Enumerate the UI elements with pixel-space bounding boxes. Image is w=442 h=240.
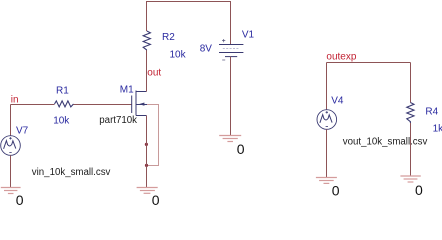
svg-text:M1: M1: [120, 84, 134, 95]
voltage source V7: [1, 126, 29, 156]
ground: [316, 178, 337, 184]
svg-text:1k: 1k: [433, 124, 442, 135]
svg-text:10k: 10k: [53, 116, 70, 127]
svg-text:0: 0: [332, 182, 340, 198]
ground: [400, 176, 420, 182]
resistor R4: [407, 103, 442, 135]
svg-text:outexp: outexp: [326, 52, 356, 63]
ground: [1, 188, 21, 194]
junction: [145, 164, 148, 167]
svg-text:0: 0: [415, 182, 423, 198]
svg-text:in: in: [11, 95, 19, 106]
battery V1: [200, 30, 255, 61]
svg-text:V7: V7: [16, 126, 29, 137]
svg-text:V4: V4: [331, 95, 344, 106]
svg-text:10k: 10k: [170, 50, 187, 61]
wire: [146, 116, 148, 188]
wire: [410, 63, 412, 103]
ground: [137, 188, 158, 194]
ground: [219, 136, 241, 142]
svg-text:0: 0: [152, 192, 160, 207]
svg-text:vin_10k_small.csv: vin_10k_small.csv: [32, 167, 111, 178]
wire: [326, 63, 328, 110]
wire: [410, 123, 412, 176]
wire: [147, 2, 231, 45]
resistor R2: [143, 31, 186, 61]
svg-text:0: 0: [16, 192, 24, 207]
wire: [147, 105, 159, 166]
voltage source V4: [317, 95, 344, 129]
wire: [326, 129, 328, 177]
svg-text:part710k: part710k: [99, 115, 137, 126]
svg-text:V1: V1: [242, 30, 255, 41]
wire: [10, 155, 12, 187]
wire: [11, 104, 55, 106]
svg-text:vout_10k_small.csv: vout_10k_small.csv: [343, 137, 428, 148]
svg-text:R4: R4: [425, 106, 438, 117]
transistor M1: [99, 84, 147, 126]
resistor R1: [53, 85, 73, 126]
svg-text:R2: R2: [162, 32, 175, 43]
wire: [230, 57, 232, 136]
junction: [145, 143, 148, 146]
svg-text:0: 0: [237, 141, 245, 157]
wire: [74, 104, 132, 106]
wire: [10, 105, 12, 136]
wire: [146, 50, 148, 92]
svg-text:out: out: [147, 68, 161, 79]
svg-text:R1: R1: [56, 85, 69, 96]
wire: [327, 62, 411, 64]
svg-text:8V: 8V: [200, 43, 213, 54]
